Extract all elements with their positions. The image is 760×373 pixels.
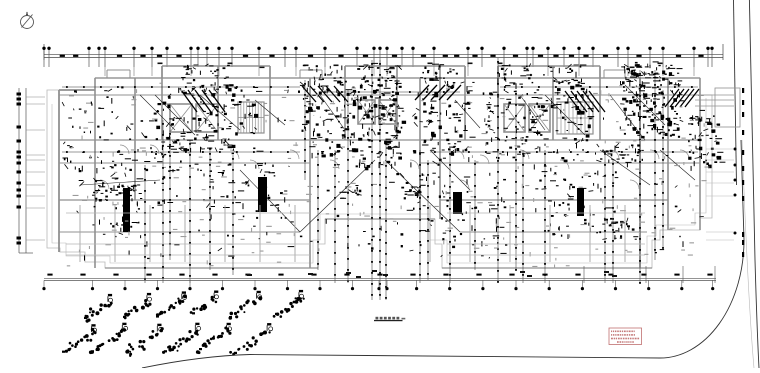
wiring cluster right lower	[535, 166, 618, 240]
outdoor symbol cluster top row 5	[229, 291, 263, 320]
elevator shafts center core	[358, 100, 396, 124]
building outer balcony outline	[47, 78, 712, 268]
shaft cluster B	[300, 65, 344, 90]
road bottom edge with corner curve	[142, 140, 744, 368]
wiring cluster left lower-left	[92, 178, 143, 238]
vertical wiring risers	[144, 58, 664, 300]
outdoor symbol cluster bottom row 4	[162, 323, 201, 354]
black fan center-right	[415, 85, 461, 100]
wiring cluster right core	[620, 64, 684, 138]
shaft cluster F	[543, 64, 586, 87]
panel cluster recess left	[339, 186, 361, 199]
faint text labels	[67, 83, 710, 269]
red approval stamp	[609, 328, 642, 345]
wiring cluster center-right unit	[411, 78, 476, 168]
outdoor symbol cluster top row 3	[156, 291, 187, 317]
sparse wiring marks	[68, 80, 705, 261]
black fan left core	[181, 90, 225, 112]
bottom dimension line with dots	[42, 274, 716, 291]
wiring cluster right-mid upper	[485, 89, 542, 160]
top grid leader lines	[105, 58, 694, 76]
black fan right core	[565, 91, 605, 112]
wiring cluster right-end bottom	[596, 218, 638, 240]
outdoor symbol cluster bottom row 2	[89, 323, 128, 354]
stair right	[557, 102, 593, 134]
outdoor symbol cluster top row 4	[190, 291, 219, 315]
shaft cluster C	[357, 63, 402, 86]
outdoor symbol cluster bottom row 1	[62, 324, 97, 353]
bottom right grid stubs	[584, 266, 715, 283]
road right outer edge	[749, 0, 759, 368]
apartment walls	[59, 66, 700, 268]
black fan center-left	[302, 86, 348, 102]
shaft cluster A	[181, 64, 230, 92]
door swing arcs	[100, 145, 689, 189]
outdoor symbol cluster bottom row 5	[196, 323, 232, 354]
outdoor symbol cluster bottom row 3	[125, 324, 163, 357]
road lane dashes	[734, 88, 745, 257]
outdoor symbol cluster bottom row 6	[229, 323, 273, 356]
dark bar right	[577, 188, 584, 216]
shaft cluster G	[624, 62, 672, 82]
horizontal wiring runs	[62, 86, 698, 153]
wiring cluster left lower-mid	[197, 163, 287, 220]
wiring cluster right-end lower	[596, 143, 644, 167]
road middle line	[742, 140, 754, 368]
dark bar left	[123, 188, 130, 232]
outdoor symbol cluster top row 6	[273, 290, 305, 318]
left riser legend column	[17, 88, 46, 253]
wiring cluster far left	[62, 90, 123, 173]
wiring cluster far right	[688, 115, 725, 171]
elevator shafts left core	[170, 104, 218, 132]
labels below building	[247, 270, 617, 278]
wiring cluster center lower	[396, 173, 506, 259]
wiring cluster left core	[154, 83, 264, 154]
north arrow symbol	[21, 12, 34, 29]
wiring cluster left mid	[111, 111, 182, 208]
black fan far-right core	[665, 89, 699, 107]
elevator shafts right core	[504, 104, 550, 132]
diagonal wiring runs	[80, 85, 695, 232]
outdoor symbol cluster top row 2	[123, 293, 152, 319]
wiring cluster left panel row	[93, 183, 137, 201]
shaft cluster E	[498, 63, 532, 89]
road left edge upper	[734, 0, 737, 185]
outdoor symbol cluster top row 1	[84, 294, 113, 323]
wiring cluster center-left unit	[298, 81, 356, 159]
dark bar center-right	[453, 192, 462, 214]
drawing title 一层电气平面图	[374, 317, 405, 321]
wiring cluster right unit	[531, 80, 594, 162]
stair left	[238, 102, 264, 133]
building inner outline	[52, 98, 706, 263]
secondary partitions	[66, 205, 645, 262]
wiring cluster center core	[352, 78, 406, 171]
road connector lines	[695, 88, 740, 240]
top dimension line with ticks	[42, 44, 723, 67]
shaft cluster D	[422, 64, 458, 88]
dark bar left-mid	[258, 177, 267, 212]
panel cluster recess right	[404, 185, 426, 199]
